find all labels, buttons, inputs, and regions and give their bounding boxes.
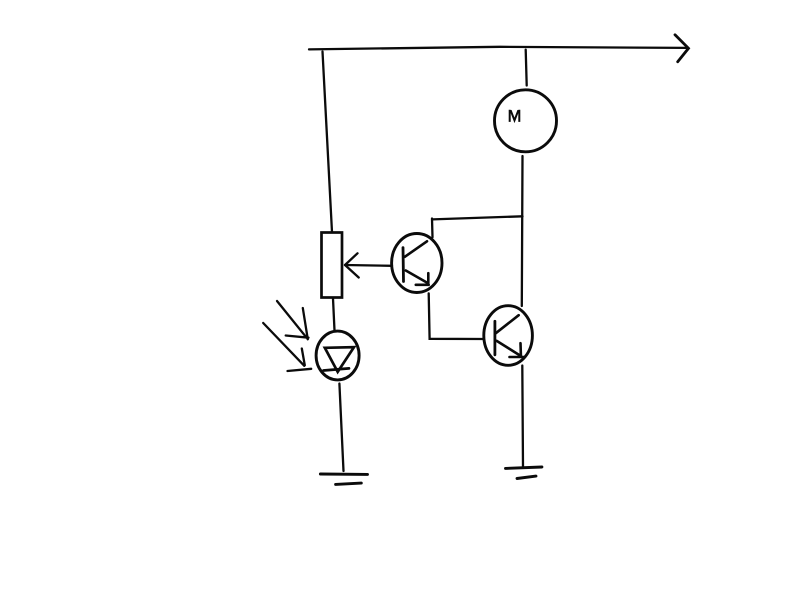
light arrow 1 (277, 301, 309, 339)
Q1 collector stroke (405, 241, 427, 256)
Q2 emitter arrowhead (510, 343, 524, 357)
wire: rail to motor (526, 50, 527, 86)
wire: Q1 emitter down and right to Q2 base (429, 293, 484, 339)
transistor Q2 circle (484, 306, 533, 366)
wire: R1 to photodiode D1 (333, 299, 335, 331)
ground (left) (320, 474, 367, 484)
wire: Q2 emitter to ground (521, 366, 524, 468)
motor M1 circle (495, 90, 557, 152)
wire: top supply rail (309, 47, 687, 50)
arrowhead on supply rail (675, 35, 689, 62)
resistor R1 (potentiometer body) (322, 233, 343, 298)
Q2 emitter stroke (497, 341, 521, 356)
motor label M (510, 110, 520, 122)
wiper arrow into R1 from Q1 base (345, 264, 392, 267)
Q1 base bar (402, 248, 405, 282)
photodiode D1 (316, 331, 359, 380)
Q1 emitter arrowhead (416, 273, 429, 285)
wire: Q1 collector to motor node (433, 216, 523, 219)
Q2 base bar (493, 321, 496, 355)
Q2 collector stroke (496, 315, 519, 333)
transistor Q1 circle (392, 234, 442, 293)
D1 triangle (325, 347, 354, 372)
D1 cathode bar (324, 368, 350, 370)
Q1 emitter stroke (406, 271, 427, 283)
wire: Q1 collector up (431, 219, 434, 238)
wire: rail down to potentiometer R1 (323, 52, 333, 233)
ground (right) (506, 467, 542, 479)
light arrow 2 (263, 323, 311, 371)
wire: D1 to ground (339, 384, 343, 472)
wire: motor node vertical (motor to Q2 collector) (521, 156, 524, 306)
